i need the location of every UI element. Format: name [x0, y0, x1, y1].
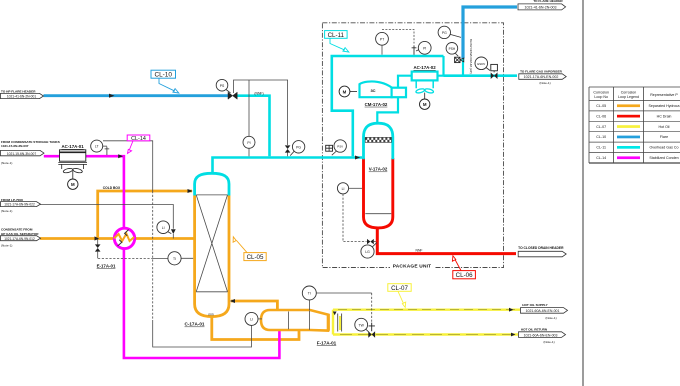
- valve at flare header junction: [228, 92, 237, 99]
- svg-text:(Note-1): (Note-1): [1, 243, 12, 247]
- instrument LI on heater vessel: [245, 312, 262, 325]
- flow arrow on flare line: [109, 94, 115, 98]
- wire CL-07 hot oil return: [333, 333, 518, 335]
- wire CL-05 heater vapour return to column: [231, 301, 277, 311]
- wire CL-11 line to flare gas vaporiser: [444, 74, 518, 77]
- wire CL-10 flare header line: [44, 94, 232, 97]
- svg-text:PI: PI: [423, 46, 426, 50]
- flow arrow into column from heater: [230, 299, 235, 303]
- vertical text BLOW DOWN DRUM: [469, 39, 473, 74]
- relief valve PSV on blowdown riser: [455, 57, 464, 62]
- column C-17A-01: [195, 173, 229, 316]
- motor M of AC-17A-02: [420, 99, 430, 109]
- instrument PG: [290, 141, 305, 156]
- label V-17A-02: [369, 167, 388, 172]
- svg-text:1021-41-6N-2N-001: 1021-41-6N-2N-001: [7, 95, 36, 99]
- svg-text:PI: PI: [247, 141, 250, 145]
- label AC-17A-02: [413, 65, 436, 70]
- flow arrow into column top feed: [188, 189, 193, 193]
- wire CL-05 feed line to column: [40, 237, 194, 240]
- svg-text:PS: PS: [220, 84, 225, 88]
- svg-text:1021-15-6N-3N-007: 1021-15-6N-3N-007: [7, 152, 36, 156]
- valve below cold box tee: [95, 239, 101, 259]
- wire CL-14 condensate line: [44, 156, 280, 358]
- legend row CL-06: [596, 114, 671, 118]
- instrument TI at exchanger: [168, 252, 181, 265]
- svg-text:AC-17A-01: AC-17A-01: [61, 144, 84, 149]
- svg-text:ESDV: ESDV: [477, 62, 485, 66]
- svg-text:F-17A-01: F-17A-01: [317, 340, 337, 345]
- vessel F-17A-01 hot oil heater: [261, 310, 342, 332]
- instrument PSV bubble near package inlet: [332, 140, 347, 155]
- svg-text:CL-10: CL-10: [154, 72, 172, 79]
- svg-text:TO FLARE GAS VAPORISER: TO FLARE GAS VAPORISER: [520, 69, 563, 73]
- svg-text:Corrosion: Corrosion: [621, 91, 637, 95]
- label C-17A-01: [185, 322, 205, 327]
- label CL-06 with leader: [452, 256, 475, 279]
- wire instrument manifold above flare line: [234, 80, 288, 156]
- tag hot oil return: [519, 327, 566, 343]
- svg-text:TO FLARE HEADER: TO FLARE HEADER: [533, 0, 563, 3]
- svg-text:FROM LP-7008: FROM LP-7008: [1, 198, 23, 202]
- air cooler AC-17A-01: [58, 150, 87, 179]
- svg-text:E-17A-01: E-17A-01: [97, 263, 116, 268]
- svg-text:C-17A-01: C-17A-01: [185, 322, 205, 327]
- wire CL-11 compressor discharge to cooler: [398, 76, 412, 88]
- tag condensate storage tanks: [1, 140, 60, 165]
- svg-text:LI: LI: [162, 226, 165, 230]
- instrument LI at exchanger: [157, 221, 171, 234]
- instrument LG on drain: [361, 243, 377, 259]
- svg-text:PSH: PSH: [449, 47, 456, 51]
- svg-text:CL-11: CL-11: [596, 146, 606, 150]
- svg-text:PG: PG: [442, 31, 447, 35]
- tag flare header inlet: [1, 89, 44, 98]
- legend row CL-11: [596, 146, 678, 150]
- motor M of AC-17A-01: [68, 179, 78, 189]
- svg-text:(Note-1): (Note-1): [1, 161, 12, 165]
- svg-text:PG: PG: [296, 145, 301, 149]
- svg-text:HOT OIL RETURN: HOT OIL RETURN: [521, 327, 548, 331]
- legend row CL-14: [596, 156, 678, 160]
- svg-text:TO CLOSED DRAIN HEADER: TO CLOSED DRAIN HEADER: [518, 246, 564, 250]
- label E-17A-01: [97, 263, 116, 268]
- svg-text:(Note-1): (Note-1): [539, 81, 550, 85]
- flow arrow on hot oil drop: [333, 312, 337, 316]
- svg-text:CL-07: CL-07: [391, 285, 408, 292]
- air cooler AC-17A-02: [412, 72, 438, 99]
- svg-text:M: M: [343, 89, 347, 94]
- svg-text:CL-05: CL-05: [247, 254, 264, 261]
- svg-text:Stabilized Conden: Stabilized Conden: [649, 156, 678, 160]
- svg-text:TI: TI: [173, 257, 176, 261]
- instrument TW on hot oil: [355, 318, 369, 332]
- svg-text:(Note-1): (Note-1): [543, 340, 554, 344]
- label NNF on overhead line: [254, 92, 263, 96]
- instrument PT with stem: [376, 32, 389, 54]
- label CL-11 with leader: [325, 31, 349, 52]
- svg-text:1021-60A-6N-EN-001: 1021-60A-6N-EN-001: [526, 309, 560, 313]
- wire CL-11 package recycle loop: [332, 56, 444, 156]
- svg-text:HC Drain: HC Drain: [657, 114, 672, 118]
- junction arrow at cold box tee: [95, 236, 100, 240]
- label CL-05 with leader: [233, 237, 266, 261]
- svg-text:1021-41-6N-2N-003: 1021-41-6N-2N-003: [525, 5, 557, 9]
- instrument PI: [243, 136, 255, 148]
- compressor CM-17A-02: [360, 81, 407, 97]
- wire LT signal line down the cold box: [103, 141, 252, 347]
- svg-text:(NNF): (NNF): [254, 92, 263, 96]
- svg-text:CL-14: CL-14: [596, 156, 606, 160]
- svg-text:PACKAGE UNIT: PACKAGE UNIT: [393, 264, 432, 270]
- svg-text:TO HP FLARE HEADER: TO HP FLARE HEADER: [1, 89, 36, 93]
- instrument PG on blowdown: [438, 26, 461, 38]
- tag hot oil supply: [521, 303, 568, 320]
- tag condensate from separator: [1, 227, 41, 247]
- vessel V-17A-02: [364, 123, 393, 228]
- wire CL-11 column overhead main line: [213, 158, 363, 175]
- svg-text:PSV: PSV: [337, 145, 343, 149]
- label F-17A-01: [317, 340, 337, 345]
- wire CL-11 relief riser: [462, 59, 464, 76]
- instrument LT on condensate line: [91, 140, 110, 155]
- wire CL-07 hot oil supply: [333, 309, 520, 311]
- wire dashed PT manifold: [382, 30, 416, 55]
- motor M of compressor: [339, 86, 357, 97]
- label NNF on drain line: [416, 248, 423, 252]
- svg-text:HP GAS OIL SEPARATOR: HP GAS OIL SEPARATOR: [1, 232, 39, 236]
- svg-text:TI: TI: [308, 292, 311, 296]
- svg-text:CL-05: CL-05: [596, 104, 606, 108]
- svg-text:AC-17A-02: AC-17A-02: [413, 65, 436, 70]
- label CL-07 with leader: [388, 284, 411, 308]
- svg-text:M: M: [71, 182, 75, 187]
- spec break square at package inlet: [326, 145, 333, 151]
- instrument ESDV with actuated valve: [475, 57, 498, 79]
- svg-text:Loop Legend: Loop Legend: [618, 95, 639, 99]
- instrument LI on drum: [337, 183, 375, 245]
- tag to flare header top: [518, 0, 566, 10]
- svg-text:M: M: [423, 102, 427, 107]
- legend table corrosion loops: [589, 87, 680, 163]
- instrument PSH: [446, 43, 458, 57]
- wire CL-05 column bottoms line: [212, 315, 299, 340]
- label AC-17A-01: [61, 144, 84, 149]
- svg-text:1021-60A-6N-EN-003: 1021-60A-6N-EN-003: [524, 333, 558, 337]
- svg-text:Loop No: Loop No: [594, 95, 608, 99]
- svg-text:LI: LI: [342, 187, 345, 191]
- svg-text:TW: TW: [359, 323, 365, 327]
- package unit dashed boundary: [322, 23, 503, 269]
- instrument PS: [216, 79, 230, 93]
- svg-text:PT: PT: [380, 37, 384, 41]
- wire TI signal line at exchanger: [98, 257, 193, 259]
- flow arrows near hot oil tags: [509, 308, 516, 337]
- svg-text:HOT OIL SUPPLY: HOT OIL SUPPLY: [522, 303, 548, 307]
- svg-text:(Note-1): (Note-1): [545, 316, 556, 320]
- tag from LP line: [1, 198, 41, 213]
- legend row CL-05: [596, 104, 679, 108]
- wire CL-11 drum overhead suction line: [377, 98, 398, 124]
- svg-text:CM-17A-02: CM-17A-02: [365, 102, 388, 107]
- wire LP tag signal line with drop: [40, 205, 176, 239]
- tag to flare gas vaporiser: [519, 69, 566, 85]
- svg-text:CL-11: CL-11: [328, 32, 345, 39]
- label CL-14 with leader: [127, 135, 150, 153]
- svg-text:V-17A-02: V-17A-02: [369, 167, 388, 172]
- svg-text:BLOW DOWN DRUM (HP): BLOW DOWN DRUM (HP): [469, 39, 473, 74]
- svg-text:Corrosion: Corrosion: [593, 91, 609, 95]
- legend row CL-07: [596, 125, 669, 129]
- svg-text:Separated Hydroca: Separated Hydroca: [649, 104, 680, 108]
- svg-text:CL-06: CL-06: [456, 272, 473, 279]
- label PACKAGE UNIT: [393, 264, 432, 270]
- wire CL-06 drum drain to closed drain header: [377, 227, 516, 254]
- svg-text:(Note-1): (Note-1): [1, 209, 12, 213]
- wire CL-11 cooler outlet riser: [438, 56, 444, 76]
- svg-text:CONDENSATE FROM: CONDENSATE FROM: [1, 227, 33, 231]
- wire CL-11 from flare valve to riser: [235, 96, 270, 157]
- svg-text:Overhead Gas Co: Overhead Gas Co: [650, 146, 679, 150]
- svg-text:nnn: nnn: [208, 312, 214, 316]
- svg-text:Representative P: Representative P: [650, 93, 678, 97]
- label CL-10 with leader: [151, 70, 179, 93]
- heat exchanger E-17A-01: [114, 228, 135, 248]
- svg-text:1021-17A-6N-EN-002: 1021-17A-6N-EN-002: [524, 75, 559, 79]
- label CM-17A-02: [365, 102, 388, 107]
- wire CL-05 cold box loop to column: [98, 191, 192, 239]
- svg-text:3C: 3C: [370, 88, 375, 93]
- wire CL-10 blow down drum line to flare: [463, 7, 517, 59]
- legend row CL-10: [596, 135, 668, 139]
- instrument TI on heater vessel: [302, 286, 375, 331]
- svg-text:1021-15-6N-3N-007: 1021-15-6N-3N-007: [1, 144, 29, 148]
- svg-text:LI: LI: [250, 318, 253, 322]
- svg-text:NNF: NNF: [416, 248, 423, 252]
- svg-text:CL-06: CL-06: [596, 114, 606, 118]
- svg-text:Flare: Flare: [660, 135, 668, 139]
- flow arrow on magenta at corner: [118, 154, 123, 158]
- valve below PG: [285, 145, 291, 152]
- tag to closed drain header: [518, 246, 566, 257]
- control valve on hot oil return: [368, 331, 375, 338]
- svg-text:1021-17A-6N-9N-022: 1021-17A-6N-9N-022: [4, 203, 35, 207]
- svg-text:Hot Oil: Hot Oil: [659, 125, 670, 129]
- flow arrow into drum: [355, 156, 360, 160]
- svg-text:CL-07: CL-07: [596, 125, 606, 129]
- svg-text:1021-17A-6N-9N-012: 1021-17A-6N-9N-012: [4, 237, 35, 241]
- svg-text:LT: LT: [95, 145, 99, 149]
- label COLD BOX: [103, 186, 121, 190]
- instrument PI on recycle: [416, 41, 431, 54]
- sheet separator line: [582, 0, 584, 386]
- svg-text:CL-10: CL-10: [596, 135, 606, 139]
- svg-text:LG: LG: [365, 250, 370, 254]
- svg-text:COLD BOX: COLD BOX: [103, 186, 121, 190]
- wire CL-07 heater bundle connections: [333, 310, 340, 335]
